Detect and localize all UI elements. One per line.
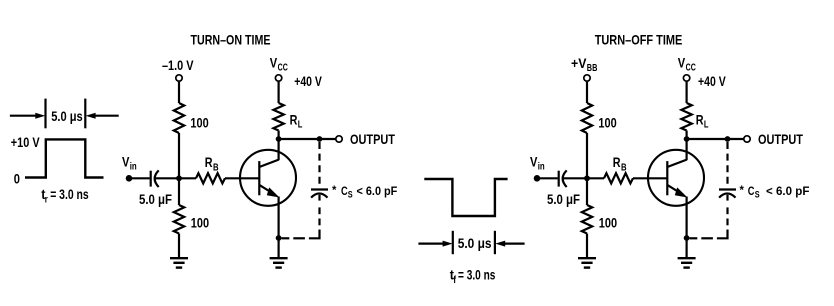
label VCC (turn-off) [678, 54, 696, 73]
wire base node to RB (turn-off) [587, 177, 604, 179]
wire Vin to coupling cap (turn-off) [537, 177, 558, 179]
resistor 100 (upper, turn-on) [174, 103, 184, 133]
resistor RL (turn-on) [273, 103, 283, 131]
wire collector lead (turn-off) [685, 139, 687, 160]
ground (left column, turn-off) [578, 258, 596, 267]
svg-text:= 3.0 ns: = 3.0 ns [458, 266, 496, 282]
label OUTPUT (turn-on) [350, 131, 395, 147]
svg-text:–1.0 V: –1.0 V [162, 57, 194, 73]
wire cap to base node (turn-off) [563, 177, 587, 179]
svg-text:S: S [348, 190, 353, 200]
svg-text:5.0 μF: 5.0 μF [547, 191, 580, 207]
transistor Q2 (turn-off) [648, 150, 704, 206]
resistor 100 (upper, turn-off) [582, 103, 592, 133]
svg-text:CC: CC [686, 62, 696, 73]
label 5.0 uF (turn-on) [139, 191, 172, 207]
dimension arrow left (turn-on) [10, 113, 45, 119]
wire RL to collector node (turn-off) [685, 131, 687, 140]
dimension arrow right (turn-off) [495, 241, 524, 247]
node base junction (turn-on) [176, 175, 182, 181]
label +VBB [571, 55, 597, 74]
resistor 100 (lower, turn-off) [582, 205, 592, 234]
terminal OUTPUT (turn-off) [744, 136, 750, 142]
label 100 (upper, turn-on) [190, 114, 208, 130]
wire RL to collector node [278, 131, 280, 140]
svg-text:CC: CC [278, 62, 288, 73]
svg-text:L: L [704, 120, 709, 131]
ground (left column, turn-on) [170, 258, 188, 267]
input pulse waveform (turn-on) [25, 139, 104, 177]
svg-text:R: R [205, 154, 213, 170]
label RB (turn-on) [205, 154, 219, 173]
svg-text:R: R [290, 111, 298, 127]
label 100 (upper, turn-off) [598, 114, 616, 130]
svg-text:TURN–ON TIME: TURN–ON TIME [191, 31, 271, 47]
svg-text:100: 100 [190, 114, 208, 130]
node collector junction (turn-on) [276, 136, 282, 142]
label RL (turn-off) [696, 111, 709, 130]
svg-text:5.0 μs: 5.0 μs [51, 108, 83, 124]
resistor RB (turn-off) [604, 173, 633, 183]
node emitter junction (turn-on) [276, 235, 282, 241]
label +10 V [11, 134, 40, 150]
svg-text:100: 100 [191, 215, 209, 231]
terminal -1.0 V [176, 75, 182, 81]
dimension bar left (turn-on 5.0us) [44, 99, 46, 129]
wire terminal to upper resistor (turn-off) [586, 82, 588, 103]
svg-text:OUTPUT: OUTPUT [350, 131, 395, 147]
node collector junction (turn-off) [684, 136, 690, 142]
ground (emitter, turn-on) [270, 258, 288, 267]
node Vin (turn-on input dot) [126, 175, 133, 182]
title TURN-OFF TIME [595, 31, 683, 47]
transistor Q1 (turn-on) [240, 150, 296, 206]
label 0 [14, 171, 20, 187]
wire emitter lead [278, 197, 280, 259]
svg-text:100: 100 [599, 215, 617, 231]
svg-text:B: B [213, 163, 219, 174]
wire dashed CS branch lower (turn-off) [690, 195, 728, 239]
node CS tap junction (turn-on) [317, 136, 323, 142]
wire base node to RB [179, 177, 196, 179]
wire collector lead [278, 139, 280, 160]
svg-text:= 3.0 ns: = 3.0 ns [50, 186, 89, 202]
svg-text:100: 100 [598, 114, 616, 130]
label RB (turn-off) [613, 154, 627, 173]
svg-text:f: f [453, 275, 456, 286]
resistor RL (turn-off) [681, 103, 691, 131]
label CS < 6.0 pF (turn-off) [740, 183, 810, 200]
svg-text:in: in [130, 162, 137, 173]
label 100 (lower, turn-off) [599, 215, 617, 231]
dimension arrow right (turn-on) [86, 113, 119, 119]
wire upper resistor to base node [178, 133, 180, 178]
label 5.0 uF (turn-off) [547, 191, 580, 207]
input pulse waveform (turn-off) [424, 179, 507, 216]
label +40 V (turn-on) [294, 73, 322, 89]
svg-text:+V: +V [571, 55, 587, 71]
wire terminal to upper resistor [178, 82, 180, 103]
svg-text:R: R [613, 154, 621, 170]
node emitter junction (turn-off) [684, 235, 690, 241]
terminal VCC (turn-on) [275, 75, 281, 81]
wire RB to transistor base (turn-off) [633, 177, 667, 179]
svg-text:L: L [298, 120, 303, 131]
label Vin (turn-off) [530, 153, 545, 172]
wire dashed CS branch lower (turn-on) [282, 195, 320, 239]
wire dashed CS branch upper (turn-off) [726, 142, 728, 184]
wire collector node to output (turn-off) [687, 138, 744, 140]
node CS tap junction (turn-off) [725, 136, 731, 142]
capacitor CS (turn-on) [311, 190, 328, 198]
dimension bar right (turn-off 5.0us) [494, 231, 496, 254]
svg-text:< 6.0 pF: < 6.0 pF [766, 184, 809, 198]
svg-text:+40 V: +40 V [698, 73, 726, 89]
title TURN-ON TIME [191, 31, 271, 47]
wire base node to lower resistor [178, 178, 180, 205]
svg-text:*: * [332, 183, 337, 197]
svg-text:V: V [270, 54, 278, 70]
node Vin (turn-off input dot) [534, 175, 541, 182]
capacitor CS (turn-off) [719, 190, 736, 198]
label +40 V (turn-off) [698, 73, 726, 89]
svg-text:TURN–OFF TIME: TURN–OFF TIME [595, 31, 683, 47]
label tr = 3.0 ns (turn-on) [41, 186, 89, 206]
capacitor 5.0uF (turn-on coupling) [151, 170, 159, 187]
wire dashed CS branch upper (turn-on) [318, 142, 320, 184]
label 100 (lower, turn-on) [191, 215, 209, 231]
dimension arrow left (turn-off) [418, 241, 452, 247]
wire VCC to RL (turn-off) [685, 82, 687, 103]
svg-text:*: * [740, 183, 745, 197]
svg-text:R: R [696, 111, 704, 127]
svg-text:+40 V: +40 V [294, 73, 322, 89]
label CS < 6.0 pF (turn-on) [332, 183, 397, 200]
label VCC (turn-on) [270, 54, 288, 73]
wire base node to lower resistor (turn-off) [586, 178, 588, 205]
dimension bar left (turn-off 5.0us) [452, 231, 454, 254]
label Vin (turn-on) [122, 153, 137, 172]
wire cap to base node [155, 177, 179, 179]
terminal +VBB [584, 75, 590, 81]
svg-text:V: V [678, 54, 686, 70]
wire collector node to output [279, 138, 336, 140]
svg-text:5.0 μF: 5.0 μF [139, 191, 172, 207]
terminal VCC (turn-off) [683, 75, 689, 81]
resistor 100 (lower, turn-on) [174, 205, 184, 234]
label RL (turn-on) [290, 111, 303, 130]
wire VCC to RL [278, 82, 280, 103]
svg-text:r: r [45, 195, 48, 206]
svg-text:B: B [621, 163, 627, 174]
wire RB to transistor base [225, 177, 259, 179]
label -1.0 V [162, 57, 194, 73]
dimension bar right (turn-on 5.0us) [84, 99, 86, 129]
svg-text:+10 V: +10 V [11, 134, 40, 150]
svg-text:< 6.0 pF: < 6.0 pF [357, 184, 398, 198]
wire emitter lead (turn-off) [685, 197, 687, 259]
svg-text:S: S [755, 190, 760, 200]
svg-text:0: 0 [14, 171, 20, 187]
wire upper resistor to base node (turn-off) [586, 133, 588, 178]
wire Vin to coupling cap [129, 177, 150, 179]
svg-text:in: in [538, 162, 545, 173]
wire lower resistor to ground [178, 234, 180, 259]
label OUTPUT (turn-off) [758, 131, 803, 147]
resistor RB (turn-on) [196, 173, 225, 183]
node base junction (turn-off) [584, 175, 590, 181]
label 5.0 us (turn-off dimension) [458, 235, 492, 251]
svg-text:OUTPUT: OUTPUT [758, 131, 803, 147]
terminal OUTPUT (turn-on) [336, 136, 342, 142]
capacitor 5.0uF (turn-off coupling) [559, 170, 567, 187]
ground (emitter, turn-off) [678, 258, 696, 267]
wire lower resistor to ground (turn-off) [586, 234, 588, 259]
svg-text:5.0 μs: 5.0 μs [458, 235, 492, 251]
svg-text:BB: BB [587, 63, 598, 74]
label tf = 3.0 ns (turn-off) [450, 266, 496, 286]
label 5.0 us (turn-on dimension) [51, 108, 83, 124]
